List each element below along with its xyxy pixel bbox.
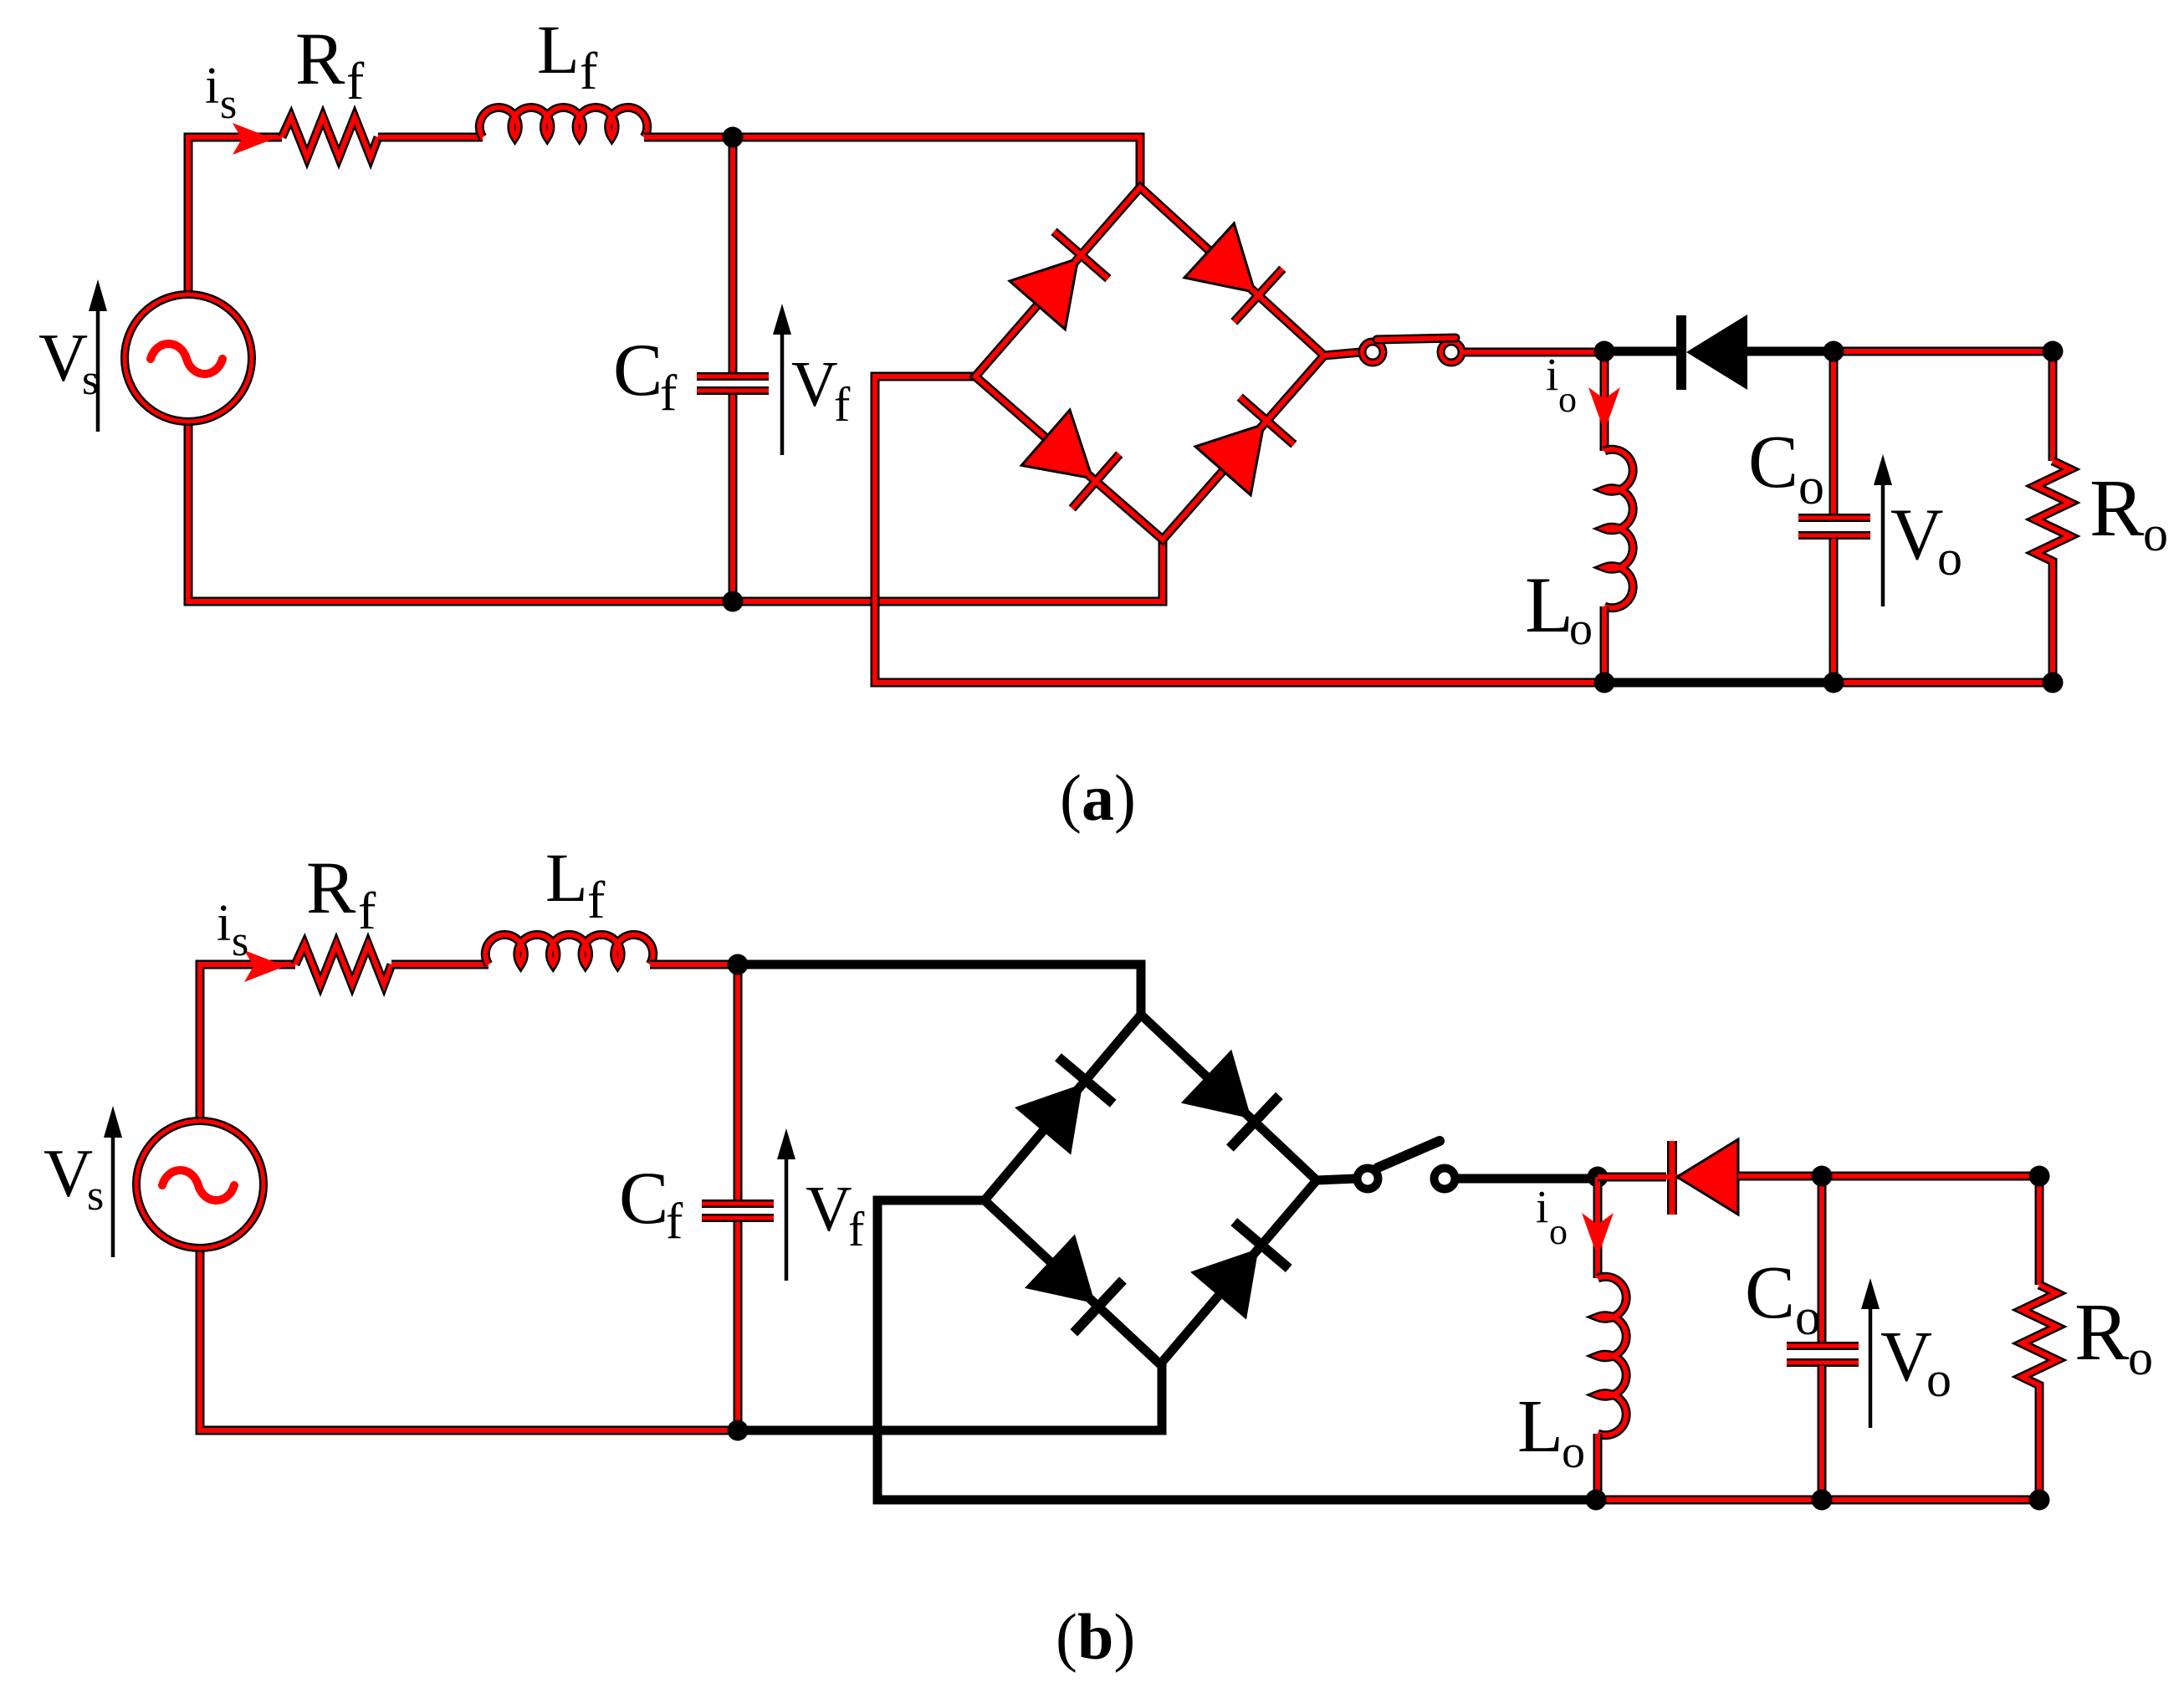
inductor L_f (b) <box>485 934 652 964</box>
svg-text:f: f <box>587 870 606 929</box>
node: Lo bottom (b) <box>1586 1490 1607 1511</box>
inductor L_o (a) : coil <box>1604 449 1633 608</box>
svg-text:C: C <box>619 1158 668 1240</box>
svg-text:R: R <box>2089 463 2145 554</box>
label Vs (b) <box>43 1135 104 1220</box>
label L_f (a) <box>537 11 598 100</box>
svg-text:i: i <box>217 895 231 952</box>
svg-text:i: i <box>1536 1181 1548 1232</box>
arrow V_o (a) <box>1874 454 1892 606</box>
wire: bottom rail of source loop (a) <box>188 422 1163 601</box>
inductor L_o (a) : bottom lead <box>1600 606 1609 683</box>
switch S (b) : blade open <box>1378 1141 1440 1168</box>
node: Ro top (b) <box>2029 1166 2050 1187</box>
black wire: bridge right to switch (b) <box>1317 1179 1356 1180</box>
node A (b) <box>728 954 749 975</box>
svg-text:o: o <box>1549 1211 1568 1252</box>
svg-text:o: o <box>1795 1289 1821 1346</box>
inductor L_o (b) : coil <box>1598 1276 1626 1435</box>
black wire: node io to diode D (a) <box>1604 347 1676 356</box>
node io (b) <box>1588 1167 1609 1188</box>
label L_o (b) <box>1517 1385 1585 1478</box>
wire: node A to bridge top (a) <box>733 137 1140 187</box>
switch S (b) : right contact <box>1435 1169 1455 1189</box>
svg-text:C: C <box>1748 421 1798 504</box>
svg-text:o: o <box>1569 603 1593 655</box>
svg-text:s: s <box>82 356 99 404</box>
black wire: switch to node io (b) <box>1456 1174 1598 1184</box>
black wire: bridge left arm to lower rail (b) <box>877 1200 1596 1500</box>
label R_f (a) <box>295 18 365 110</box>
switch S (a) : blade closed <box>1377 338 1455 340</box>
wire: Vs top to Rf (a) <box>188 137 282 294</box>
node: Co bottom (a) <box>1823 673 1844 693</box>
label C_o (a) <box>1748 421 1824 515</box>
bridge diode D4 bottom-right (a) <box>1195 375 1313 495</box>
label L_o (a) <box>1525 560 1593 655</box>
node: Ro top (a) <box>2043 341 2064 362</box>
label i_s (a) <box>205 58 237 128</box>
svg-text:V: V <box>38 320 88 396</box>
bridge diode D4 bottom-right (b) <box>1190 1221 1290 1320</box>
wire: Lf to node A (b) <box>650 960 738 969</box>
wire: switch to node io (a) <box>1463 348 1604 357</box>
svg-text:V: V <box>806 1173 852 1245</box>
capacitor C_o (b) : bottom lead <box>1818 1366 1827 1500</box>
diode D (a) : bar <box>1676 315 1686 390</box>
svg-text:i: i <box>205 58 219 115</box>
capacitor C_f (a) : plates <box>697 376 769 391</box>
node: Co bottom (b) <box>1812 1490 1833 1511</box>
bridge diode D2 top-right (a) <box>1184 223 1305 342</box>
bridge diamond wires (b) <box>985 1015 1317 1364</box>
svg-text:s: s <box>220 80 237 128</box>
svg-text:f: f <box>580 41 598 100</box>
current arrow i_s (b) <box>244 950 285 982</box>
voltage source Vs (a) <box>125 294 252 422</box>
label R_f (b) <box>306 847 376 940</box>
node: Cf bottom (b) <box>728 1420 749 1441</box>
svg-text:V: V <box>43 1135 93 1211</box>
switch S (a) : right contact <box>1441 342 1462 363</box>
node: Cf bottom (a) <box>723 591 744 612</box>
label i_o (a) <box>1546 349 1577 420</box>
node A (a) <box>723 127 744 148</box>
inductor L_o (b) : top lead <box>1593 1177 1603 1278</box>
arrow V_o (b) <box>1861 1278 1880 1428</box>
svg-text:V: V <box>1890 494 1944 575</box>
node: Co top (a) <box>1823 341 1844 362</box>
bridge diode D2 top-right (b) <box>1181 1050 1280 1149</box>
svg-text:V: V <box>1880 1316 1932 1396</box>
red wire: diode to Co node (b) <box>1738 1172 1822 1181</box>
node io (a) <box>1594 341 1615 362</box>
black wire: diode D to Co node (a) <box>1747 347 1834 356</box>
svg-text:(a): (a) <box>1060 761 1136 834</box>
svg-text:o: o <box>1798 458 1824 515</box>
svg-text:C: C <box>1745 1251 1795 1334</box>
capacitor C_o (a) : top lead <box>1829 351 1839 514</box>
bridge diode D3 bottom-left (b) <box>1025 1235 1123 1334</box>
label L_f (b) <box>545 839 606 929</box>
diode D (b) : bar <box>1660 1141 1681 1215</box>
wire: Lf to node A (a) <box>644 133 733 142</box>
svg-text:i: i <box>1546 349 1558 400</box>
capacitor C_o (a) : bottom lead <box>1829 539 1839 683</box>
inductor L_o (a) : top lead <box>1600 352 1609 451</box>
svg-text:o: o <box>2128 1330 2153 1385</box>
bridge diode D1 top-left (b) <box>1015 1056 1114 1154</box>
label R_o (b) <box>2074 1287 2153 1385</box>
label i_o (b) <box>1536 1181 1568 1252</box>
black wire: Cf bottom node to bridge bottom (b) <box>738 1364 1162 1430</box>
wire: bridge left arm to lower rail (a) <box>875 376 1604 683</box>
red wire: Lo bottom to Ro bottom (b) <box>1596 1496 2039 1505</box>
capacitor C_o (b) : top lead <box>1818 1176 1827 1343</box>
current arrow i_s (a) <box>233 123 274 155</box>
capacitor C_f (b) : leads <box>734 964 743 1430</box>
svg-text:f: f <box>834 377 851 432</box>
resistor R_o (b) <box>2022 1285 2057 1500</box>
label V_f (b) <box>806 1173 865 1256</box>
capacitor C_f (a) : leads <box>729 137 738 601</box>
svg-text:f: f <box>848 1202 865 1256</box>
inductor L_f (a) <box>479 107 647 137</box>
arrow V_f (a) <box>773 304 791 455</box>
voltage source Vs (b) <box>136 1121 263 1248</box>
svg-text:(b): (b) <box>1056 1600 1135 1673</box>
svg-text:R: R <box>295 18 345 100</box>
svg-text:L: L <box>537 11 580 88</box>
arrow V_f (b) <box>777 1128 795 1281</box>
node: Ro bottom (b) <box>2029 1490 2050 1511</box>
svg-text:o: o <box>1562 1426 1585 1478</box>
capacitor C_f (b) : plates <box>702 1204 774 1218</box>
label Vs (a) <box>38 320 99 404</box>
label i_s (b) <box>217 895 248 965</box>
inductor L_o (b) : bottom lead <box>1593 1434 1603 1500</box>
bridge diamond wires (a) <box>975 187 1324 540</box>
svg-text:s: s <box>87 1172 104 1220</box>
svg-text:o: o <box>2143 506 2168 561</box>
red wire: Co bottom to Ro bottom (a) <box>1834 678 2053 688</box>
svg-text:L: L <box>1517 1385 1563 1468</box>
label R_o (a) <box>2089 463 2168 561</box>
label C_f (b) <box>619 1158 683 1250</box>
svg-text:f: f <box>666 1194 683 1250</box>
switch S (b) : left contact <box>1358 1169 1378 1189</box>
resistor R_o (a) <box>2035 461 2070 683</box>
svg-text:C: C <box>613 330 662 412</box>
red wire: node io to diode (b) <box>1598 1173 1666 1182</box>
svg-text:o: o <box>1937 530 1962 586</box>
red wire: Co node to Ro corner (a) <box>1834 351 2053 461</box>
bridge diode D1 top-left (a) <box>1010 209 1128 330</box>
diode D (b) : triangle <box>1677 1139 1738 1215</box>
resistor R_f (b) <box>295 944 391 985</box>
node: Co top (b) <box>1812 1166 1833 1187</box>
red wire: Co node to Ro corner (b) <box>1822 1176 2039 1285</box>
svg-text:f: f <box>660 366 678 422</box>
node: Ro bottom (a) <box>2043 673 2064 693</box>
label C_f (a) <box>613 330 678 422</box>
label V_o (b) <box>1880 1316 1951 1407</box>
current arrow i_o (a) <box>1588 387 1620 432</box>
switch S (a) : left contact <box>1363 342 1384 363</box>
wire: bottom rail of source loop (b) <box>200 1248 738 1430</box>
wire: Vs top to Rf (b) <box>200 964 295 1121</box>
svg-text:f: f <box>358 881 376 940</box>
arrow Vs (a) <box>89 279 107 432</box>
bridge diode D3 bottom-left (a) <box>1021 410 1142 528</box>
svg-text:R: R <box>306 847 356 929</box>
svg-text:R: R <box>2074 1287 2130 1378</box>
node: Lo bottom (a) <box>1594 673 1615 693</box>
diode D (a) : triangle <box>1686 315 1747 390</box>
svg-text:s: s <box>232 918 248 965</box>
svg-text:L: L <box>545 839 588 916</box>
label V_f (a) <box>791 348 851 432</box>
black wire: node A to bridge top (b) <box>738 964 1141 1015</box>
svg-text:V: V <box>791 348 838 420</box>
wire: bridge right to switch (a) <box>1324 352 1361 356</box>
current arrow i_o (b) <box>1582 1213 1614 1257</box>
black wire: Lo bottom to Co bottom (a) <box>1604 678 1834 688</box>
capacitor C_o (b) : plates <box>1787 1346 1859 1363</box>
wire: Rf to Lf (b) <box>391 960 488 969</box>
svg-text:o: o <box>1926 1352 1951 1407</box>
arrow Vs (b) <box>104 1106 122 1257</box>
svg-text:L: L <box>1525 560 1573 649</box>
svg-text:f: f <box>346 51 365 110</box>
capacitor C_o (a) : plates <box>1798 518 1870 535</box>
resistor R_f (a) <box>282 117 378 157</box>
svg-text:o: o <box>1558 379 1577 420</box>
label V_o (a) <box>1890 494 1962 586</box>
wire: Rf to Lf (a) <box>378 133 483 142</box>
label C_o (b) <box>1745 1251 1821 1346</box>
